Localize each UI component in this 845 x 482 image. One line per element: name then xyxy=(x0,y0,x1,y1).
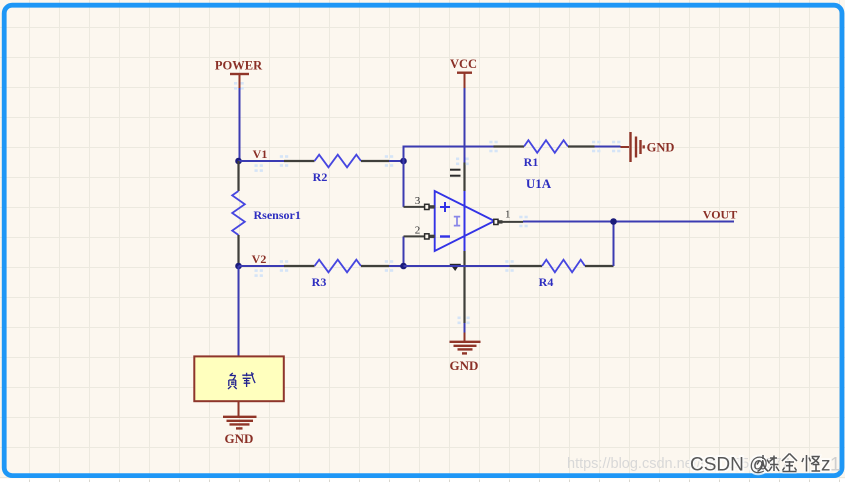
svg-text:GND: GND xyxy=(450,358,479,373)
node V2/R4 junction xyxy=(400,263,407,270)
wire R2 to node xyxy=(389,160,404,162)
wire feedback up to output xyxy=(613,222,615,267)
ground GND below op-amp xyxy=(450,333,481,374)
wire R1 to GND xyxy=(595,146,621,148)
svg-text:R4: R4 xyxy=(539,275,554,289)
wire V1 to R2 xyxy=(239,160,285,162)
wire junction up to R1 row xyxy=(404,147,494,162)
ground GND right of R1 xyxy=(621,132,675,162)
svg-text:GND: GND xyxy=(647,141,675,155)
ground GND below load xyxy=(223,401,257,446)
pin 11 of U1A xyxy=(450,163,465,192)
svg-text:U1A: U1A xyxy=(526,176,552,191)
load box (负载) xyxy=(194,356,283,401)
svg-text:CSDN @: CSDN @ xyxy=(690,455,768,476)
wire R3 to node xyxy=(389,265,404,267)
resistor R2 xyxy=(284,155,389,184)
svg-text:Rsensor1: Rsensor1 xyxy=(254,208,301,222)
op-amp U1A xyxy=(435,176,552,251)
wire V2 down to load xyxy=(238,266,240,356)
pin 3 of U1A xyxy=(404,161,435,210)
svg-text:R1: R1 xyxy=(524,155,539,169)
wire inside op-amp (power rail) xyxy=(464,191,466,251)
node V1 xyxy=(235,147,267,164)
node output junction xyxy=(610,218,617,225)
node V2 xyxy=(235,252,266,269)
svg-text:2: 2 xyxy=(415,225,421,237)
pin 1 of U1A xyxy=(494,208,523,224)
svg-text:1: 1 xyxy=(505,208,511,220)
wire output to VOUT xyxy=(523,221,734,223)
resistor Rsensor1 xyxy=(232,161,301,266)
svg-text:VOUT: VOUT xyxy=(703,208,737,222)
wire POWER vertical xyxy=(239,75,241,160)
svg-text:POWER: POWER xyxy=(215,59,263,73)
power port VCC xyxy=(450,57,477,88)
power port POWER xyxy=(215,59,263,76)
resistor R4 xyxy=(510,260,614,289)
pin 2 of U1A xyxy=(404,225,435,266)
svg-text:VCC: VCC xyxy=(450,57,477,71)
wire VCC down xyxy=(464,88,466,163)
svg-text:R2: R2 xyxy=(313,170,328,184)
svg-text:R3: R3 xyxy=(312,275,327,289)
svg-text:1: 1 xyxy=(830,455,841,476)
watermark xyxy=(567,454,841,476)
resistor R1 xyxy=(494,140,595,169)
svg-text:V2: V2 xyxy=(252,252,267,266)
svg-text:3: 3 xyxy=(415,195,421,207)
node R2/R1 junction xyxy=(400,158,407,165)
svg-text:GND: GND xyxy=(225,431,254,446)
pin 4 of U1A xyxy=(450,251,465,323)
wire V2 to R3 xyxy=(239,265,285,267)
connection grid marks xyxy=(234,82,620,324)
svg-text:V1: V1 xyxy=(253,147,268,161)
wire to GND below op-amp xyxy=(464,323,466,333)
resistor R3 xyxy=(284,260,389,289)
wire junction to R4 xyxy=(404,265,510,267)
